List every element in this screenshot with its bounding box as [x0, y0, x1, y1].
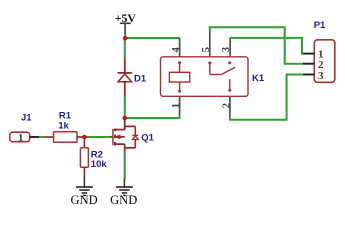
wire D1 to node B — [124, 97, 126, 119]
svg-text:P1: P1 — [314, 20, 326, 31]
switch common lead — [229, 79, 231, 89]
wire node B to K1 pin 1 — [125, 116, 180, 118]
node C junction — [82, 135, 87, 140]
connector P1 — [314, 40, 335, 83]
svg-text:GND: GND — [110, 193, 137, 207]
switch armature — [210, 64, 235, 75]
relay K1 body — [161, 57, 249, 97]
svg-text:3: 3 — [318, 70, 324, 82]
switch contact dot pin3 — [228, 61, 231, 64]
P1 pin stub 1 — [303, 53, 314, 55]
svg-text:5: 5 — [201, 47, 212, 52]
resistor R1 — [44, 136, 54, 138]
svg-text:1: 1 — [18, 132, 24, 144]
K1 pin 2 — [229, 96, 231, 115]
transistor Q1 — [110, 119, 138, 153]
P1 pin stub 2 — [303, 63, 314, 65]
power +5V symbol — [120, 23, 131, 35]
svg-text:3: 3 — [221, 47, 232, 52]
svg-text:Q1: Q1 — [141, 132, 154, 143]
wire Q1 gate to node C — [84, 136, 110, 138]
wire K1 pin3 to P1 pin1 — [230, 38, 303, 54]
svg-text:GND: GND — [71, 193, 98, 207]
coil lead bottom — [179, 82, 181, 90]
wire K1 pin2 to P1 pin3 — [230, 75, 303, 120]
coil contact dot bottom — [178, 90, 181, 93]
connector J1 — [10, 132, 30, 142]
K1 pin 3 — [229, 37, 231, 56]
svg-text:10k: 10k — [91, 159, 108, 170]
pin stub J1 — [30, 136, 40, 138]
relay coil — [169, 72, 189, 82]
wire J1 to R1 — [39, 136, 44, 138]
K1 pin 5 — [209, 31, 211, 57]
coil contact dot top — [178, 61, 181, 64]
wire K1 pin5 to P1 pin2 — [210, 27, 303, 64]
node A junction — [123, 36, 128, 41]
svg-text:1: 1 — [171, 103, 182, 108]
svg-text:K1: K1 — [252, 73, 265, 84]
svg-text:2: 2 — [221, 103, 232, 108]
ground symbol 1 — [76, 177, 93, 195]
node B junction — [123, 116, 128, 121]
K1 pin 4 — [179, 38, 181, 57]
svg-text:D1: D1 — [134, 73, 147, 84]
resistor R2 — [83, 138, 85, 148]
wire Q1 source to ground — [124, 153, 126, 180]
switch common dot — [228, 89, 231, 92]
wire node A to K1 pin 4 — [125, 37, 180, 39]
svg-text:4: 4 — [171, 47, 182, 53]
ground symbol 2 — [116, 179, 133, 196]
P1 pin stub 3 — [303, 74, 314, 76]
svg-text:1k: 1k — [58, 120, 69, 131]
wire node A to D1 — [124, 39, 126, 58]
wire +5V to node A — [124, 35, 126, 39]
svg-text:J1: J1 — [21, 112, 32, 123]
K1 pin 1 — [179, 96, 181, 116]
switch contact dot pin5 — [208, 61, 211, 64]
diode D1 — [118, 58, 132, 98]
coil lead top — [179, 64, 181, 73]
